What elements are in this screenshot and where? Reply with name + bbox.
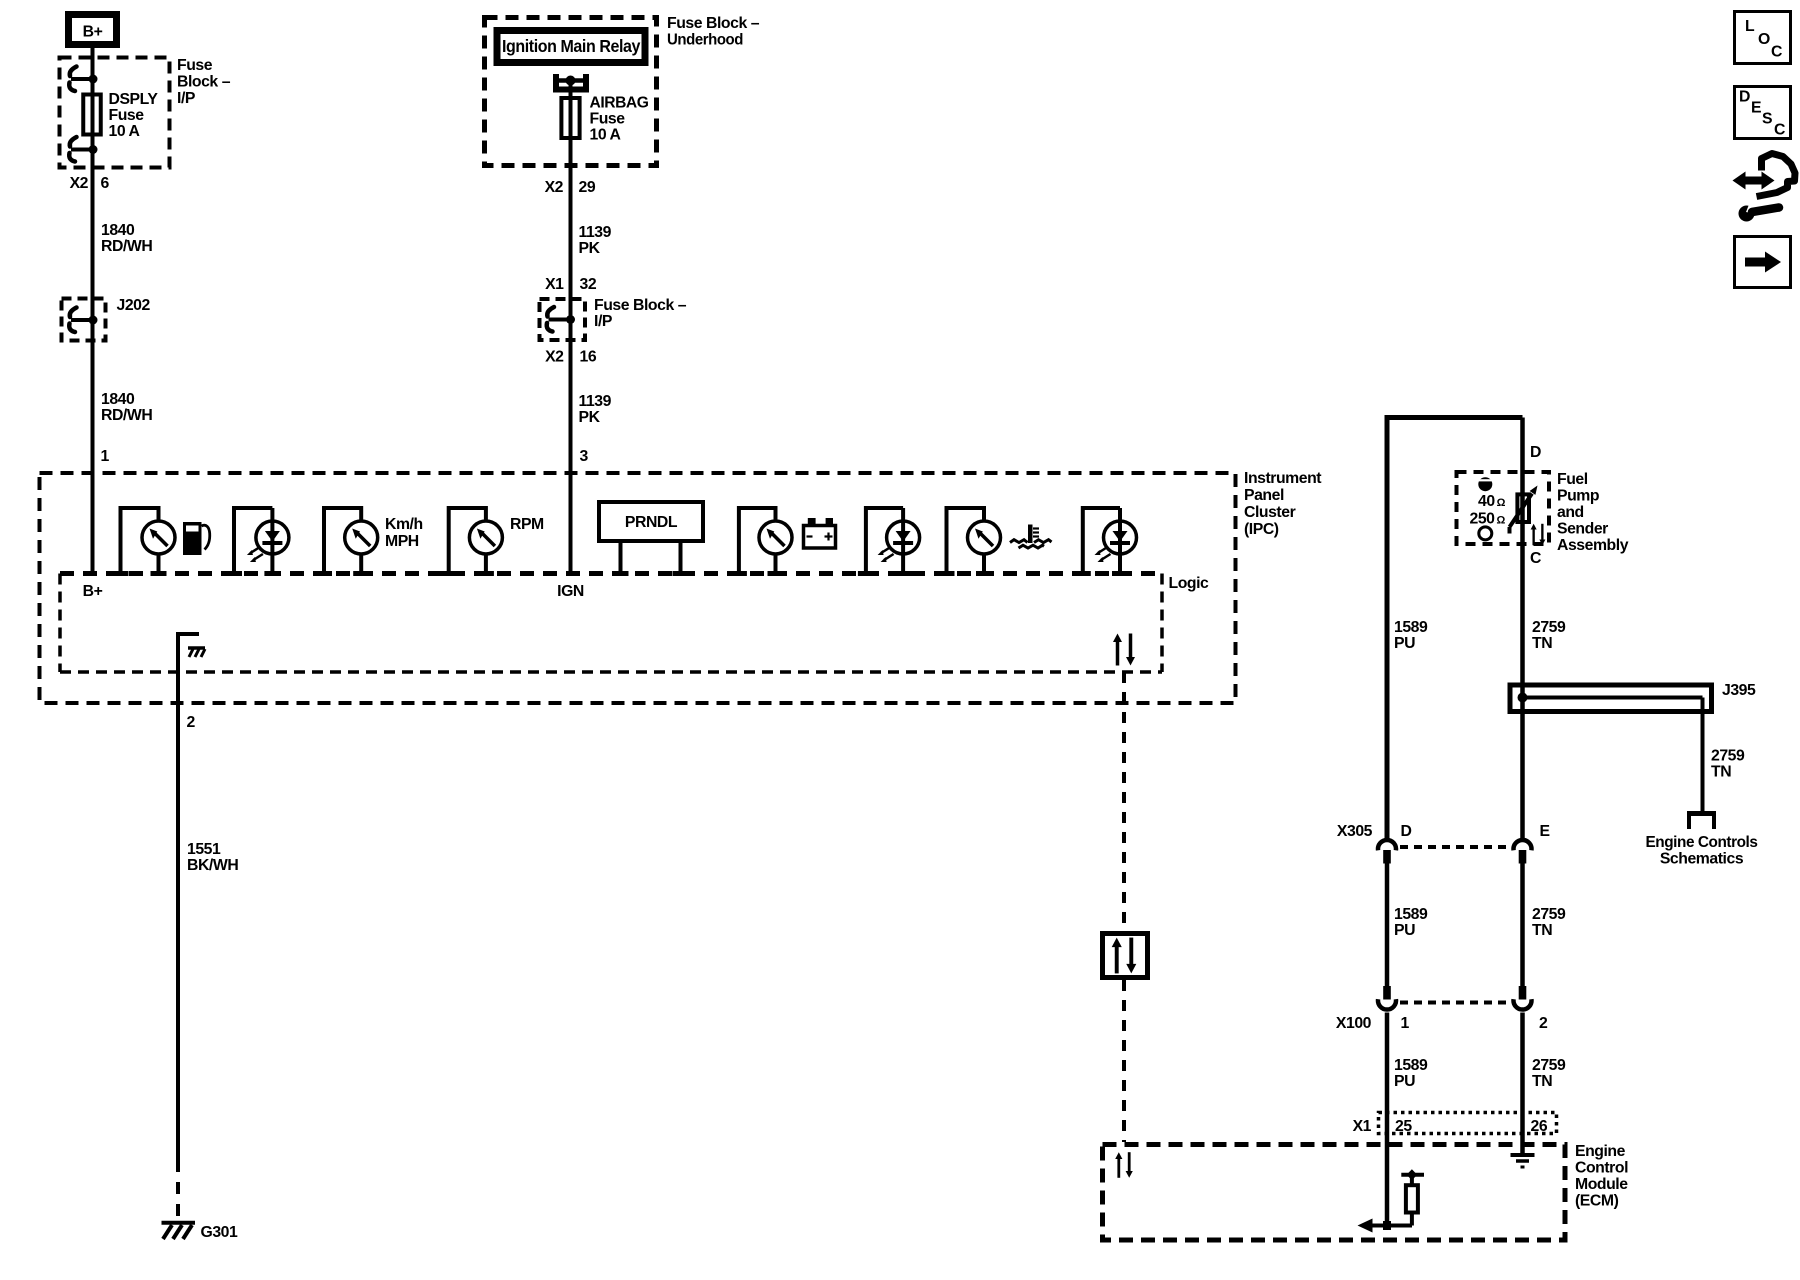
- svg-text:X2: X2: [545, 349, 564, 366]
- svg-text:X2: X2: [70, 175, 89, 192]
- svg-text:IGN: IGN: [557, 583, 584, 600]
- svg-text:1840: 1840: [101, 391, 135, 408]
- svg-text:D: D: [1739, 89, 1750, 106]
- svg-text:Assembly: Assembly: [1557, 537, 1629, 554]
- svg-text:1139: 1139: [579, 224, 612, 241]
- svg-text:Instrument: Instrument: [1244, 470, 1322, 487]
- svg-text:S: S: [1762, 111, 1772, 128]
- svg-text:X1: X1: [545, 276, 564, 293]
- svg-text:L: L: [1745, 18, 1755, 35]
- svg-text:10 A: 10 A: [590, 127, 621, 144]
- svg-text:25: 25: [1395, 1118, 1412, 1135]
- svg-text:AIRBAG: AIRBAG: [590, 95, 649, 112]
- svg-text:Block –: Block –: [177, 74, 231, 91]
- svg-text:2759: 2759: [1711, 748, 1745, 765]
- svg-text:RPM: RPM: [510, 516, 544, 533]
- svg-text:6: 6: [101, 175, 110, 192]
- svg-text:D: D: [1401, 823, 1412, 840]
- svg-text:Module: Module: [1575, 1176, 1628, 1193]
- svg-text:Sender: Sender: [1557, 521, 1608, 538]
- svg-text:PU: PU: [1394, 635, 1415, 652]
- svg-text:BK/WH: BK/WH: [187, 857, 238, 874]
- svg-text:I/P: I/P: [177, 90, 195, 107]
- svg-text:Control: Control: [1575, 1160, 1628, 1177]
- svg-text:29: 29: [579, 179, 596, 196]
- svg-text:Panel: Panel: [1244, 487, 1284, 504]
- svg-text:PU: PU: [1394, 1073, 1415, 1090]
- svg-text:DSPLY: DSPLY: [109, 91, 159, 108]
- svg-text:TN: TN: [1711, 764, 1731, 781]
- svg-text:(IPC): (IPC): [1244, 521, 1279, 538]
- svg-text:2759: 2759: [1532, 1057, 1566, 1074]
- svg-text:32: 32: [580, 276, 597, 293]
- svg-text:Logic: Logic: [1169, 575, 1210, 592]
- svg-text:C: C: [1774, 122, 1785, 139]
- svg-text:1: 1: [1401, 1015, 1410, 1032]
- svg-text:B+: B+: [83, 583, 103, 600]
- svg-text:2759: 2759: [1532, 906, 1566, 923]
- svg-text:I/P: I/P: [594, 313, 612, 330]
- svg-text:B+: B+: [83, 24, 103, 41]
- svg-text:and: and: [1557, 504, 1584, 521]
- svg-text:Pump: Pump: [1557, 488, 1599, 505]
- svg-text:Fuse Block –: Fuse Block –: [667, 15, 760, 32]
- svg-text:RD/WH: RD/WH: [101, 238, 152, 255]
- svg-text:1551: 1551: [187, 841, 221, 858]
- svg-text:X100: X100: [1336, 1015, 1372, 1032]
- svg-text:1589: 1589: [1394, 619, 1428, 636]
- svg-text:Ignition Main Relay: Ignition Main Relay: [502, 36, 641, 56]
- svg-text:16: 16: [580, 349, 597, 366]
- svg-text:Underhood: Underhood: [667, 32, 743, 49]
- svg-text:E: E: [1751, 100, 1761, 117]
- svg-text:(ECM): (ECM): [1575, 1193, 1619, 1210]
- svg-text:Fuel: Fuel: [1557, 471, 1588, 488]
- svg-text:J202: J202: [117, 297, 151, 314]
- svg-text:X1: X1: [1353, 1118, 1372, 1135]
- svg-text:TN: TN: [1532, 635, 1552, 652]
- svg-text:O: O: [1758, 31, 1770, 48]
- svg-text:PU: PU: [1394, 922, 1415, 939]
- svg-text:Cluster: Cluster: [1244, 504, 1296, 521]
- svg-text:3: 3: [580, 448, 589, 465]
- svg-text:Fuse: Fuse: [177, 57, 213, 74]
- svg-text:1139: 1139: [579, 393, 612, 410]
- svg-text:26: 26: [1531, 1118, 1548, 1135]
- svg-text:MPH: MPH: [385, 533, 419, 550]
- svg-text:2: 2: [187, 714, 196, 731]
- svg-text:Engine: Engine: [1575, 1143, 1626, 1160]
- svg-text:X2: X2: [545, 179, 564, 196]
- svg-text:1589: 1589: [1394, 1057, 1428, 1074]
- svg-text:J395: J395: [1722, 682, 1756, 699]
- svg-text:RD/WH: RD/WH: [101, 407, 152, 424]
- svg-text:Km/h: Km/h: [385, 516, 423, 533]
- svg-text:1840: 1840: [101, 222, 135, 239]
- svg-text:Fuse Block –: Fuse Block –: [594, 297, 687, 314]
- svg-text:PRNDL: PRNDL: [625, 514, 678, 531]
- svg-text:1: 1: [101, 448, 110, 465]
- svg-text:E: E: [1540, 823, 1550, 840]
- svg-text:X305: X305: [1337, 823, 1373, 840]
- svg-text:10 A: 10 A: [109, 123, 140, 140]
- svg-text:2: 2: [1539, 1015, 1548, 1032]
- svg-text:Schematics: Schematics: [1660, 851, 1744, 868]
- svg-text:PK: PK: [579, 409, 601, 426]
- svg-text:Fuse: Fuse: [109, 107, 145, 124]
- svg-text:Engine Controls: Engine Controls: [1646, 834, 1759, 851]
- svg-text:TN: TN: [1532, 1073, 1552, 1090]
- svg-text:D: D: [1530, 444, 1541, 461]
- svg-text:1589: 1589: [1394, 906, 1428, 923]
- svg-text:TN: TN: [1532, 922, 1552, 939]
- svg-text:PK: PK: [579, 240, 601, 257]
- svg-text:Fuse: Fuse: [590, 111, 626, 128]
- svg-text:2759: 2759: [1532, 619, 1566, 636]
- svg-text:C: C: [1771, 44, 1782, 61]
- svg-text:G301: G301: [201, 1224, 239, 1241]
- svg-text:C: C: [1530, 550, 1541, 567]
